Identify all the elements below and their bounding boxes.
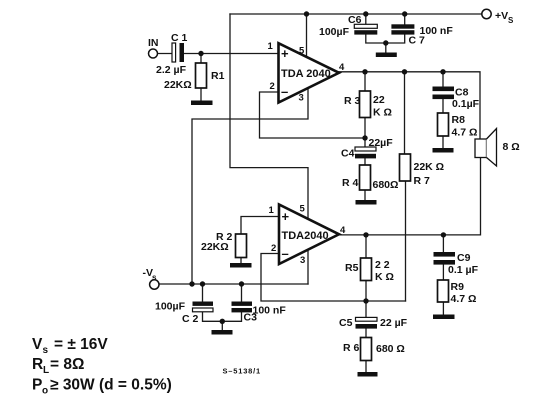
- capacitor C8: [433, 87, 480, 111]
- svg-text:5: 5: [300, 204, 306, 215]
- op-amp U2 TDA2040 triangle: [279, 205, 339, 265]
- svg-text:C6: C6: [348, 14, 362, 26]
- svg-text:V: V: [32, 336, 43, 353]
- ground under R9: [433, 315, 455, 320]
- svg-text:0.1 µF: 0.1 µF: [448, 264, 479, 276]
- wire amp2 pin1 to R2: [241, 217, 279, 235]
- svg-text:L: L: [43, 365, 49, 376]
- svg-text:1: 1: [268, 41, 274, 52]
- wire R4 lead: [364, 190, 366, 200]
- svg-text:R 6: R 6: [343, 342, 360, 354]
- svg-text:= 8Ω: = 8Ω: [50, 356, 84, 373]
- capacitor C5: [339, 317, 408, 329]
- ground under R4: [356, 200, 377, 205]
- svg-text:K Ω: K Ω: [375, 271, 394, 283]
- svg-text:22: 22: [373, 94, 385, 106]
- svg-text:2: 2: [270, 81, 275, 92]
- wire C9 R9 column: [442, 235, 444, 252]
- op-amp U2 pin labels: [269, 204, 347, 267]
- svg-text:0.1µF: 0.1µF: [452, 98, 480, 110]
- svg-text:22KΩ: 22KΩ: [164, 79, 192, 91]
- svg-text:100µF: 100µF: [319, 26, 350, 38]
- capacitor C6: [319, 14, 377, 38]
- wire amp2 pin2 feedback: [261, 254, 406, 302]
- svg-text:22 µF: 22 µF: [380, 317, 408, 329]
- capacitor C2: [155, 301, 213, 326]
- wire R6 lead: [365, 361, 367, 373]
- resistor R5: [345, 258, 394, 283]
- svg-text:3: 3: [299, 93, 304, 104]
- svg-text:1: 1: [269, 205, 275, 216]
- svg-text:2.2 µF: 2.2 µF: [156, 64, 187, 76]
- svg-text:680 Ω: 680 Ω: [376, 343, 405, 355]
- node R5 output junction: [363, 232, 368, 237]
- wire C2 leads: [202, 284, 204, 302]
- wire input line: [158, 53, 173, 55]
- svg-text:8 Ω: 8 Ω: [503, 141, 520, 153]
- resistor R6: [343, 338, 405, 361]
- resistor R3: [344, 91, 392, 119]
- node C6 rail: [363, 11, 368, 16]
- ground under C2 C3: [212, 330, 233, 335]
- resistor R7: [400, 154, 445, 187]
- wire +Vs drop to lower amp: [230, 14, 308, 219]
- svg-text:C5: C5: [339, 317, 353, 329]
- wire C2 C3 ground stem: [221, 321, 223, 330]
- svg-text:R9: R9: [451, 281, 465, 293]
- capacitor C3: [232, 302, 287, 324]
- node C2 C3 ground junction: [220, 319, 225, 324]
- svg-text:s: s: [43, 345, 49, 356]
- wire amp1 pin5 to rail: [306, 14, 308, 58]
- wire -Vs rail: [159, 283, 308, 285]
- ground under R8: [433, 148, 454, 153]
- svg-text:C 1: C 1: [171, 32, 188, 44]
- ground under C6 C7: [376, 53, 397, 58]
- svg-text:–: –: [282, 246, 289, 261]
- svg-text:IN: IN: [148, 37, 159, 49]
- resistor R9: [438, 280, 477, 305]
- wire amp2 pin3 to -Vs rail: [307, 249, 309, 284]
- wire R2 lead to ground: [240, 258, 242, 264]
- svg-text:+: +: [281, 46, 289, 61]
- svg-text:2: 2: [271, 243, 276, 254]
- wire R7 column: [404, 72, 406, 154]
- svg-text:s: s: [152, 273, 157, 282]
- terminal -Vs: [143, 267, 160, 289]
- node amp1 pin5 rail: [304, 11, 309, 16]
- wire amp1 pin2 feedback: [260, 92, 366, 138]
- wire C1 to amp1 pin1: [184, 53, 278, 55]
- svg-text:22K Ω: 22K Ω: [414, 161, 445, 173]
- svg-text:4.7 Ω: 4.7 Ω: [452, 127, 478, 139]
- svg-text:≥ 30W (d = 0.5%): ≥ 30W (d = 0.5%): [50, 377, 172, 394]
- svg-text:4: 4: [339, 62, 345, 73]
- svg-text:4.7 Ω: 4.7 Ω: [451, 293, 477, 305]
- svg-text:K Ω: K Ω: [373, 107, 392, 119]
- wire output 1 line: [339, 72, 480, 139]
- svg-text:R 4: R 4: [342, 177, 359, 189]
- capacitor C7: [391, 24, 453, 46]
- node C7 rail: [402, 11, 407, 16]
- svg-text:R1: R1: [211, 70, 225, 82]
- resistor R8: [438, 113, 478, 139]
- svg-text:+V: +V: [495, 10, 508, 22]
- capacitor C9: [434, 252, 479, 276]
- speaker LS: [475, 129, 520, 167]
- ground under R1: [191, 101, 213, 106]
- wire amp1 pin3 to -Vs rail: [192, 86, 308, 284]
- svg-text:C4: C4: [341, 148, 355, 160]
- node C2 rail junction: [200, 281, 205, 286]
- svg-text:100µF: 100µF: [155, 301, 186, 313]
- svg-text:22KΩ: 22KΩ: [201, 241, 229, 253]
- resistor R1: [164, 63, 225, 91]
- svg-text:= ± 16V: = ± 16V: [54, 336, 108, 353]
- svg-text:C3: C3: [244, 312, 258, 324]
- node R7 output junction: [402, 69, 407, 74]
- node input junction: [198, 51, 203, 56]
- node R3 output junction: [362, 69, 367, 74]
- svg-text:R8: R8: [452, 114, 466, 126]
- wire C5 leads: [365, 301, 367, 317]
- svg-text:2 2: 2 2: [375, 259, 390, 271]
- svg-text:R 3: R 3: [344, 95, 361, 107]
- svg-text:R: R: [32, 356, 43, 373]
- wire R5 leads: [365, 235, 367, 258]
- node C8 output junction: [440, 69, 445, 74]
- node C6 C7 ground junction: [383, 40, 388, 45]
- op-amp U1 pin labels: [268, 41, 346, 104]
- wire top +Vs rail: [230, 13, 482, 15]
- svg-text:4: 4: [340, 225, 346, 236]
- svg-text:TDA 2040: TDA 2040: [281, 68, 331, 80]
- resistor R4: [342, 165, 398, 191]
- terminal +Vs: [482, 9, 514, 25]
- capacitor C1: [156, 32, 188, 76]
- svg-text:S–5138/1: S–5138/1: [223, 367, 262, 376]
- svg-text:100 nF: 100 nF: [253, 305, 287, 317]
- svg-text:R5: R5: [345, 262, 359, 274]
- terminal IN: [148, 37, 159, 58]
- wire C7 leads: [404, 14, 406, 24]
- svg-text:C8: C8: [455, 87, 469, 99]
- svg-text:TDA2040: TDA2040: [282, 230, 329, 242]
- svg-text:–: –: [281, 84, 288, 99]
- ground under R6: [358, 372, 378, 377]
- ground under R2: [230, 263, 252, 268]
- svg-text:+: +: [282, 209, 290, 224]
- wire C6 C7 ground stem: [385, 43, 387, 53]
- svg-text:3: 3: [300, 255, 305, 266]
- text spec line 2: [32, 356, 84, 376]
- node C3 rail junction: [239, 281, 244, 286]
- svg-text:22µF: 22µF: [369, 137, 394, 149]
- op-amp U1 TDA2040 triangle: [279, 43, 340, 102]
- svg-text:C 2: C 2: [182, 313, 199, 325]
- node C9 output junction: [441, 232, 446, 237]
- svg-text:R 7: R 7: [414, 175, 431, 187]
- text spec line 1: [32, 336, 108, 356]
- wire C6 leads: [365, 14, 367, 24]
- svg-text:C9: C9: [457, 252, 471, 264]
- svg-text:o: o: [42, 386, 48, 397]
- svg-text:P: P: [32, 377, 42, 394]
- node R3 C4 junction: [362, 135, 367, 140]
- node -Vs amp1 pin3 junction: [189, 281, 194, 286]
- capacitor C4: [341, 137, 393, 160]
- svg-text:680Ω: 680Ω: [373, 179, 399, 191]
- resistor R2: [201, 231, 247, 258]
- text spec line 3: [32, 377, 172, 397]
- wire C3 leads: [241, 284, 243, 302]
- wire output 2 line: [339, 158, 481, 235]
- wire R1 leads: [200, 54, 202, 64]
- wire C4 leads: [364, 138, 366, 147]
- node R5 C5 junction: [363, 298, 368, 303]
- wire C8 R8 column: [442, 72, 444, 86]
- svg-text:S: S: [508, 16, 514, 25]
- wire R3 leads: [364, 72, 366, 91]
- svg-text:C 7: C 7: [409, 35, 426, 47]
- svg-text:5: 5: [299, 46, 305, 57]
